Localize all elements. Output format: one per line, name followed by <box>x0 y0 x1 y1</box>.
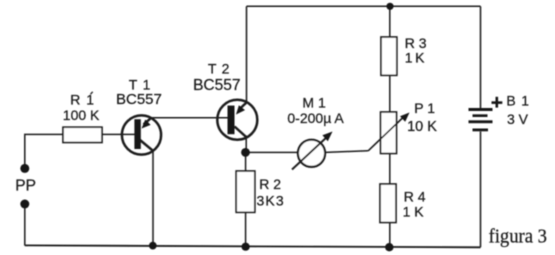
svg-text:PP: PP <box>15 178 36 195</box>
svg-text:1 K: 1 K <box>403 203 425 219</box>
svg-text:P 1: P 1 <box>414 100 435 116</box>
svg-text:R 2: R 2 <box>259 176 281 192</box>
svg-text:3K3: 3K3 <box>257 192 285 208</box>
svg-text:3 V: 3 V <box>507 111 529 127</box>
svg-text:100 K: 100 K <box>63 107 100 123</box>
svg-text:1 K: 1 K <box>405 50 425 66</box>
svg-text:B 1: B 1 <box>506 93 529 109</box>
svg-text:T 2: T 2 <box>208 60 230 76</box>
svg-text:BC557: BC557 <box>193 77 240 94</box>
svg-text:R 4: R 4 <box>404 188 426 204</box>
svg-text:M 1: M 1 <box>302 95 326 111</box>
svg-text:BC557: BC557 <box>116 91 162 108</box>
svg-text:10 K: 10 K <box>407 119 437 135</box>
svg-text:0-200µ A: 0-200µ A <box>287 110 344 126</box>
svg-text:figura 3: figura 3 <box>489 226 548 248</box>
svg-text:T 1: T 1 <box>129 77 151 93</box>
